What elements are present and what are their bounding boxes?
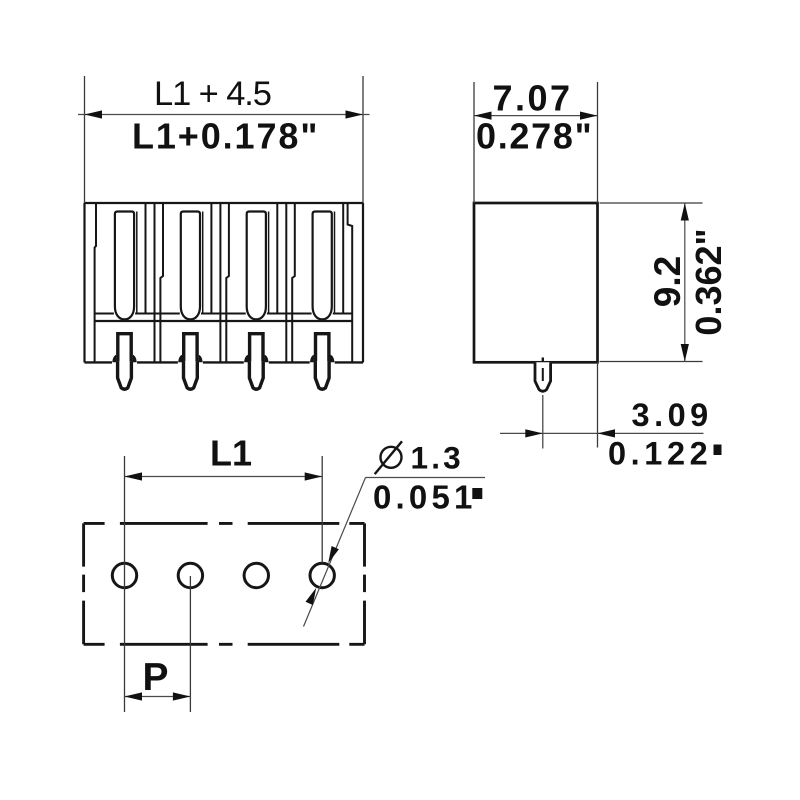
arrowhead up [681,203,689,221]
inch block after 0.122 [714,445,722,456]
extension line left [84,76,86,203]
chain line rect right edge [363,523,366,644]
dimension 7.07 extension right / 3.09 extension [597,82,599,203]
svg-text:7.07: 7.07 [493,78,573,119]
hole 2 [178,563,202,587]
side view body outline [474,203,598,362]
dimension 9.2 extension top [600,202,703,204]
svg-text:L1 + 4.5: L1 + 4.5 [154,75,271,113]
dimension line 3.09 [500,432,704,434]
chain line rect left edge [82,523,85,644]
chain line rect top edge [84,523,365,644]
front view pin 1 collar flares [112,355,116,362]
front view pin 3 bullet tip [249,361,263,389]
diameter symbol [381,447,402,468]
arrowhead pointing right at pin centerline [525,429,543,437]
centerline through hole 1 (L1 + P extension) [124,456,126,712]
front view body bottom edge segments [85,361,364,363]
arrowhead down [681,344,689,362]
svg-text:0.122: 0.122 [608,436,712,472]
leader arrowhead upper (pointing at hole 4) [328,546,339,563]
front view pin 3 upper shank [250,334,263,363]
side view pin centerline [542,395,544,449]
front view horizontal shelf line (upper) [95,313,353,315]
svg-text:3.09: 3.09 [632,397,713,433]
front view cell wall jog lines [160,203,294,362]
arrowhead right [305,472,323,480]
dimension 9.2 extension bottom [600,361,703,363]
hole 3 [244,563,268,587]
chain line rect bottom edge [84,643,365,646]
front view contact slot 1 [115,212,134,320]
arrowhead left [474,112,492,120]
arrowhead left [125,692,143,700]
front view body top edge [85,202,364,204]
front view short cell walls [146,203,344,314]
extension line hole 4 (L1) [321,456,323,563]
front view pin 1 bullet tip [118,361,132,389]
arrowhead right [173,692,191,700]
front view pin 1 upper shank [118,334,131,363]
arrowhead left [85,110,103,118]
extension line right [362,76,364,203]
front view body right edge [362,203,364,363]
svg-text:0.362": 0.362" [688,228,729,335]
svg-text:L1+0.178": L1+0.178" [132,116,319,157]
front view pin 2 bullet tip [184,361,198,389]
hole 4 [310,563,334,587]
dimension line 9.2 [684,203,686,362]
arrowhead right [580,112,598,120]
leader shelf line [366,477,486,479]
svg-text:P: P [142,656,168,699]
dimension 7.07 extension left [473,82,475,203]
dimension line P [125,696,191,698]
front view pin 3 collar flares [244,355,248,362]
front view internal vertical walls [95,203,353,362]
front view pin 4 bullet tip [315,361,329,389]
front view contact slot 4 [313,212,332,320]
dimension line 7.07 [474,115,598,117]
front view pin 4 collar flares [310,355,314,362]
front view pin 2 collar flares [178,355,182,362]
front view contact slit lines right of slots [137,212,335,314]
front view horizontal shelf line (lower) [95,320,353,322]
front view pin 4 upper shank [316,334,329,363]
dimension line L1 [125,476,323,478]
inch block after 0.051 [472,488,482,499]
svg-text:0.051: 0.051 [373,479,477,516]
svg-text:0.278": 0.278" [476,116,593,157]
front view pin 2 upper shank [184,334,197,363]
svg-text:9.2: 9.2 [647,256,688,307]
arrowhead left [125,472,143,480]
hole 1 [112,563,136,587]
dimension line L1+4.5 [78,114,370,116]
front view contact slot 3 [247,212,266,320]
front view body left edge [83,203,85,363]
svg-text:1.3: 1.3 [411,440,464,476]
side view pin bullet [535,362,551,391]
front view contact slot 2 [181,212,200,320]
leader arrowhead lower (pointing at hole 4) [306,588,317,605]
leader diagonal [304,478,366,627]
svg-text:L1: L1 [210,433,252,474]
arrowhead right [346,110,364,118]
arrowhead pointing left at right extension [598,429,616,437]
centerline below hole 2 (P extension) [189,576,191,712]
side view pin center tick [542,358,544,363]
